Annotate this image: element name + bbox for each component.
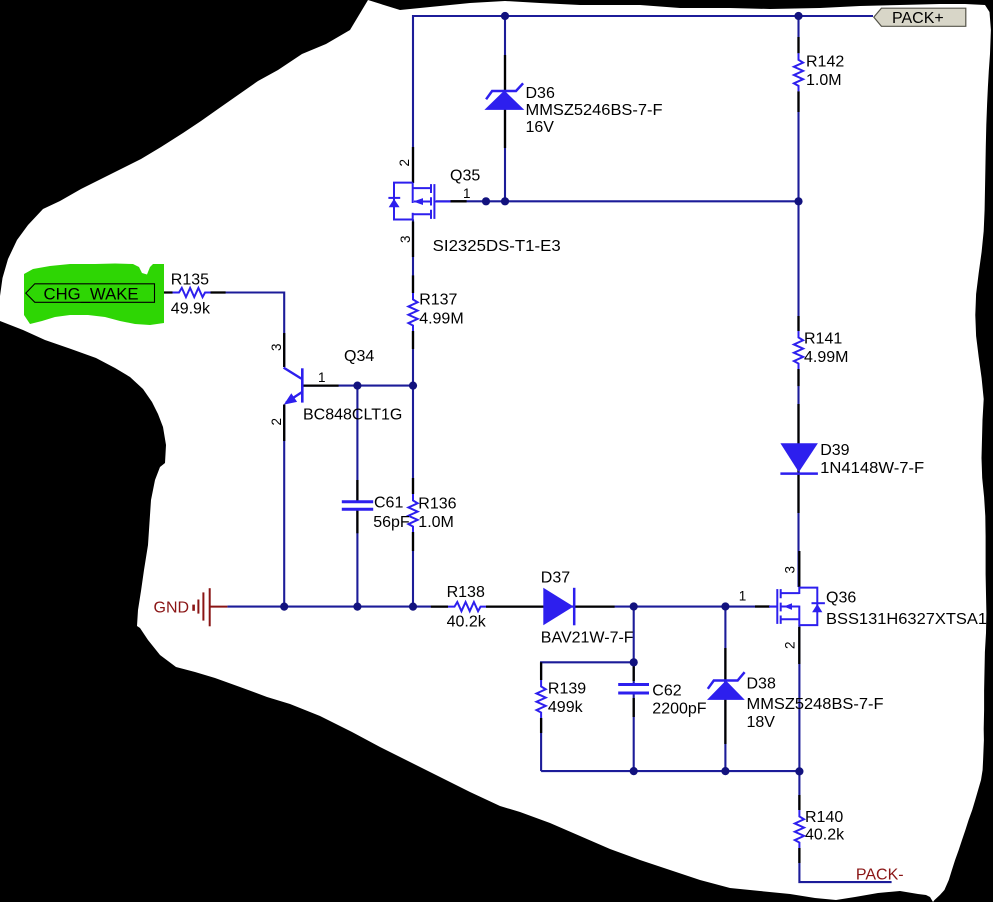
zener D38 <box>707 672 745 700</box>
svg-text:Q34: Q34 <box>344 348 374 365</box>
node bot rail / C62 <box>630 767 638 775</box>
wire Q34 base rail <box>302 385 413 387</box>
pin Q34 c1 <box>302 384 339 386</box>
wire R137 to R136 <box>412 331 414 494</box>
svg-text:2200pF: 2200pF <box>652 701 706 718</box>
diode D39 <box>780 443 818 473</box>
pin R141 top <box>797 316 799 331</box>
pin D39 <box>797 404 799 513</box>
pin Q34 b3 <box>283 333 285 367</box>
svg-text:3: 3 <box>398 235 413 243</box>
transistor Q34 <box>284 368 303 405</box>
node gnd / Q34e <box>280 603 288 611</box>
pin C62 bot <box>633 698 635 717</box>
resistor R140 <box>795 810 804 848</box>
node bot rail / Q36 <box>795 767 803 775</box>
svg-text:1N4148W-7-F: 1N4148W-7-F <box>820 460 924 477</box>
node gnd / D37 <box>630 602 638 610</box>
wire R142 vertical top <box>797 15 799 53</box>
transistor Q35 (P-MOSFET) <box>388 183 450 220</box>
node gnd / R136 <box>409 603 417 611</box>
wire C62 bottom <box>633 693 635 771</box>
wire C61 bottom <box>356 509 358 606</box>
svg-text:R136: R136 <box>418 496 456 513</box>
svg-text:PACK+: PACK+ <box>892 10 944 27</box>
wire Q35 drain vertical <box>412 15 414 183</box>
wire GND rail right <box>486 606 777 608</box>
wire GND rail left <box>227 606 448 608</box>
wire Q35 to R137 <box>412 220 414 294</box>
svg-text:SI2325DS-T1-E3: SI2325DS-T1-E3 <box>433 238 561 255</box>
port CHG_WAKE <box>26 284 155 304</box>
svg-text:2: 2 <box>783 641 798 649</box>
resistor R138 <box>448 602 486 611</box>
pin D37 cathode <box>574 605 614 607</box>
pin R137 top <box>412 275 414 293</box>
svg-text:D37: D37 <box>541 570 570 587</box>
wire Q36 source down <box>798 625 800 810</box>
pin D38 <box>724 648 726 744</box>
svg-text:MMSZ5246BS-7-F: MMSZ5246BS-7-F <box>526 102 663 119</box>
svg-text:4.99M: 4.99M <box>419 311 463 328</box>
wire R141 top <box>797 201 799 331</box>
wire D36 vertical <box>504 16 506 201</box>
svg-text:BAV21W-7-F: BAV21W-7-F <box>541 630 634 647</box>
wire R142 vertical bottom <box>797 91 799 201</box>
svg-text:56pF: 56pF <box>373 514 410 531</box>
node bot rail / D38 <box>721 767 729 775</box>
svg-text:R137: R137 <box>419 292 457 309</box>
node top rail / R142 <box>794 12 802 20</box>
svg-text:R135: R135 <box>171 272 209 289</box>
svg-text:BC848CLT1G: BC848CLT1G <box>303 407 402 424</box>
wire R141 to D39 to Q36 <box>797 369 799 587</box>
pin Q36 d3 <box>798 551 800 587</box>
node base / C61 <box>353 382 361 390</box>
pin R142 top <box>797 37 799 53</box>
svg-text:R140: R140 <box>805 809 843 826</box>
pin R139 top <box>540 662 542 680</box>
resistor R141 <box>794 331 803 369</box>
svg-text:MMSZ5248BS-7-F: MMSZ5248BS-7-F <box>747 696 884 713</box>
ground GND <box>194 588 228 626</box>
pin D36 <box>504 55 506 148</box>
svg-text:1: 1 <box>463 186 471 201</box>
wire R136 to gnd rail <box>412 532 414 607</box>
svg-text:40.2k: 40.2k <box>805 827 845 844</box>
wire D37 node to C62 <box>633 607 635 685</box>
resistor R135 <box>173 288 211 297</box>
pin C62 top <box>633 664 635 681</box>
pin R139 bot <box>540 718 542 733</box>
svg-text:BSS131H6327XTSA1: BSS131H6327XTSA1 <box>826 611 987 628</box>
node top rail / D36 <box>501 12 509 20</box>
pin C61 top <box>356 480 358 502</box>
capacitor C61 plates <box>342 502 373 510</box>
pin R136 top <box>412 478 414 494</box>
svg-text:2: 2 <box>269 418 284 426</box>
pin Q34 e2 <box>283 405 285 442</box>
svg-text:C62: C62 <box>652 683 681 700</box>
pin R136 bot <box>412 532 414 551</box>
svg-text:R139: R139 <box>548 681 586 698</box>
wire R135 to Q34 base <box>211 293 285 368</box>
wire Q34 emitter down <box>283 405 285 607</box>
node drain rail / D36 <box>501 197 509 205</box>
svg-text:D38: D38 <box>747 676 776 693</box>
diode D37 <box>543 588 574 626</box>
pin Q35 g1 <box>451 200 467 202</box>
pin Q35 d2 <box>412 147 414 183</box>
node gnd / D38 <box>721 602 729 610</box>
node base / R137 <box>409 382 417 390</box>
resistor R139 <box>536 680 545 718</box>
pin Q35 d3 <box>412 222 414 258</box>
svg-text:C61: C61 <box>374 495 403 512</box>
svg-text:4.99M: 4.99M <box>804 349 848 366</box>
node gnd / C61 <box>353 603 361 611</box>
pin Q36 gate <box>755 605 770 607</box>
svg-text:49.9k: 49.9k <box>171 301 211 318</box>
svg-text:GND: GND <box>154 600 190 617</box>
svg-text:1: 1 <box>739 589 747 604</box>
node drain rail a <box>482 197 490 205</box>
node drain rail / R142 <box>794 197 802 205</box>
pin R137 bot <box>412 331 414 349</box>
svg-text:Q35: Q35 <box>450 168 480 185</box>
svg-text:18V: 18V <box>747 714 776 731</box>
svg-text:CHG_WAKE: CHG_WAKE <box>44 285 139 304</box>
wire C61 top <box>356 386 358 502</box>
svg-text:1.0M: 1.0M <box>806 72 842 89</box>
pin R135 left <box>155 291 173 293</box>
wire Q35 pin1 rail <box>436 200 799 202</box>
svg-text:3: 3 <box>269 343 284 351</box>
pin R138 right / D37 anode <box>486 605 545 607</box>
svg-text:40.2k: 40.2k <box>447 614 487 631</box>
pin R135 right <box>211 291 226 293</box>
wire top rail PACK+ <box>413 15 873 17</box>
svg-text:16V: 16V <box>526 119 555 136</box>
svg-text:PACK-: PACK- <box>856 867 904 884</box>
svg-text:R138: R138 <box>447 584 485 601</box>
zener D36 <box>484 83 524 110</box>
resistor R142 <box>794 53 803 91</box>
pin R140 bot <box>798 848 800 863</box>
svg-text:Q36: Q36 <box>826 590 856 607</box>
pin Q36 s2 <box>798 627 800 664</box>
port PACK+ <box>874 8 966 27</box>
transistor Q36 (N-MOSFET) <box>769 587 825 625</box>
wire D38 branch <box>724 607 726 772</box>
svg-text:499k: 499k <box>548 699 584 716</box>
svg-text:R142: R142 <box>806 53 844 70</box>
svg-text:1: 1 <box>318 370 326 385</box>
resistor R137 <box>408 293 417 331</box>
svg-text:2: 2 <box>397 159 412 167</box>
pin R138 left <box>431 605 448 607</box>
wire R139 bottom <box>540 718 542 771</box>
wire CHG_WAKE net left <box>155 291 173 293</box>
svg-text:3: 3 <box>783 566 798 574</box>
pin R142 bot <box>797 91 799 112</box>
node R139 top <box>630 658 638 666</box>
svg-text:1.0M: 1.0M <box>418 514 454 531</box>
pin R140 top <box>798 795 800 810</box>
svg-text:R141: R141 <box>804 331 842 348</box>
svg-text:D36: D36 <box>526 85 555 102</box>
wire R139 branch top <box>541 662 634 680</box>
wire R140 to PACK- <box>799 848 891 882</box>
capacitor C62 plates <box>618 685 649 694</box>
svg-text:D39: D39 <box>820 442 849 459</box>
resistor R136 <box>408 494 417 532</box>
pin C61 bot <box>356 509 358 533</box>
pin R141 bot <box>797 369 799 386</box>
wire bottom rail <box>541 770 799 772</box>
green highlight blob <box>24 264 164 326</box>
